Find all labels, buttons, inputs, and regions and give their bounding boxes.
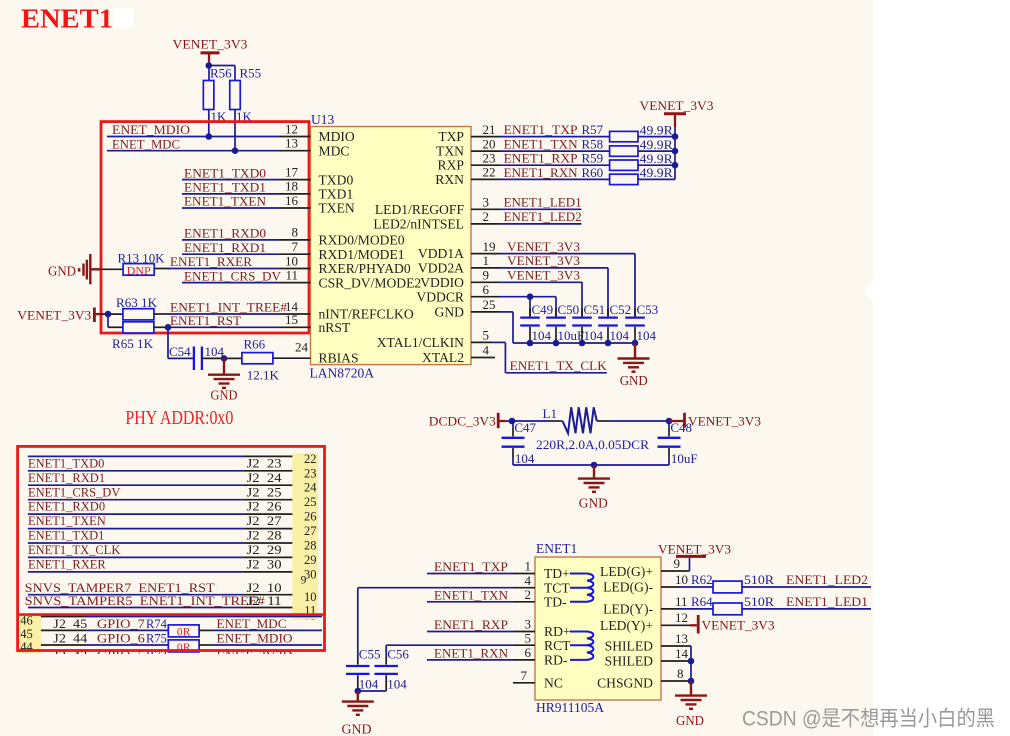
capacitor C50 10uF [546, 302, 584, 343]
svg-text:2: 2 [483, 209, 490, 224]
svg-text:LED(Y)-: LED(Y)- [603, 602, 653, 618]
svg-text:R60: R60 [582, 165, 604, 180]
svg-text:VENET_3V3: VENET_3V3 [688, 415, 761, 429]
svg-text:ENET1_TXN: ENET1_TXN [434, 588, 508, 602]
resistor R58 49.9R [610, 137, 675, 156]
svg-text:104: 104 [515, 451, 535, 466]
wire shield pins 13/14/8 to ground [661, 631, 694, 684]
svg-text:ENET_MDC: ENET_MDC [112, 137, 180, 151]
net ENET1_TXN pin 2 [427, 587, 535, 602]
svg-text:ENET1_TXD0: ENET1_TXD0 [184, 166, 266, 180]
svg-text:9: 9 [301, 575, 307, 587]
clipped bottom row [53, 649, 292, 663]
svg-text:VENET_3V3: VENET_3V3 [17, 309, 91, 323]
svg-text:13: 13 [285, 136, 298, 151]
net ENET1_TXEN pin 16 [182, 193, 311, 209]
net ENET1_LED1 pin 11 via R64 [661, 594, 713, 609]
svg-text:15: 15 [285, 312, 298, 327]
svg-text:C48: C48 [670, 420, 692, 435]
svg-text:25: 25 [483, 297, 496, 312]
svg-text:ENET1_RST: ENET1_RST [170, 314, 241, 328]
svg-text:49.9R: 49.9R [640, 151, 673, 166]
wire J2 pin 22 (clipped row) [28, 455, 293, 457]
svg-text:R13 10K: R13 10K [118, 250, 166, 265]
svg-text:C49: C49 [532, 302, 554, 317]
svg-text:ENET1_RXD0: ENET1_RXD0 [184, 227, 266, 241]
svg-text:RBIAS: RBIAS [319, 351, 359, 366]
svg-text:SHILED: SHILED [605, 639, 654, 654]
svg-text:LED2/nINTSEL: LED2/nINTSEL [373, 217, 464, 232]
svg-text:VENET_3V3: VENET_3V3 [507, 240, 580, 254]
svg-text:29: 29 [304, 553, 317, 567]
svg-text:J2 25: J2 25 [247, 485, 282, 499]
svg-text:TCT: TCT [544, 580, 570, 595]
power VENET_3V3 (top) [173, 38, 248, 61]
power VENET_3V3 pin 12 [661, 610, 775, 634]
net ENET1_RXD1 pin 7 [182, 239, 311, 255]
connector J2 strip (left) [18, 613, 41, 653]
svg-text:24: 24 [304, 481, 317, 495]
svg-text:MDIO: MDIO [319, 129, 355, 144]
net ENET_MDIO pin 12 [107, 121, 311, 137]
svg-text:28: 28 [304, 539, 317, 553]
svg-text:8: 8 [292, 225, 299, 240]
resistor R75 0R [168, 640, 199, 654]
svg-text:LED(Y)+: LED(Y)+ [600, 618, 653, 634]
svg-text:ENET1_TXP: ENET1_TXP [434, 560, 508, 574]
net ENET_MDIO [199, 632, 322, 646]
svg-text:R55: R55 [240, 66, 262, 81]
white cursor box [113, 8, 134, 28]
ground below C54 [208, 358, 240, 402]
svg-text:RCT: RCT [544, 638, 571, 653]
wire C47/C48 ground bus [513, 462, 669, 469]
svg-text:R56: R56 [210, 66, 232, 81]
net ENET1_TX_CLK J2 pin 29 [28, 543, 293, 557]
net VENET_3V3 pin 9 to C51 [471, 268, 582, 317]
svg-text:ENET1_TXD1: ENET1_TXD1 [184, 181, 266, 195]
svg-text:TD-: TD- [544, 594, 567, 609]
svg-text:TXD0: TXD0 [319, 172, 354, 187]
svg-text:TXP: TXP [438, 129, 464, 144]
transformer coil (TX) [570, 574, 593, 602]
resistor R64 510R [713, 594, 871, 615]
svg-text:21: 21 [483, 122, 496, 137]
net ENET1_LED2 pin 2 [471, 209, 582, 224]
svg-text:ENET1_RXN: ENET1_RXN [504, 166, 578, 180]
svg-text:J2 23: J2 23 [247, 456, 282, 470]
net ENET1_RXER pin 10 [154, 253, 310, 269]
svg-text:ENET1_TXEN: ENET1_TXEN [28, 514, 106, 528]
svg-text:J2 30: J2 30 [247, 558, 282, 572]
svg-text:ENET1_RXER: ENET1_RXER [28, 558, 106, 572]
svg-text:ENET_MDIO: ENET_MDIO [112, 123, 190, 137]
svg-text:3: 3 [483, 195, 490, 210]
svg-text:GPIO_6: GPIO_6 [97, 632, 145, 646]
svg-text:ENET1_LED1: ENET1_LED1 [504, 196, 582, 210]
net ENET_MDC pin 13 [107, 136, 311, 152]
svg-text:ENET1_TX_CLK: ENET1_TX_CLK [510, 359, 607, 373]
svg-text:11: 11 [675, 594, 688, 609]
svg-text:49.9R: 49.9R [640, 137, 673, 152]
net ENET1_TXD0 pin 17 [182, 164, 311, 180]
svg-text:R64: R64 [691, 594, 713, 609]
svg-text:ENET1_RXN: ENET1_RXN [434, 647, 508, 661]
svg-text:RXER/PHYAD0: RXER/PHYAD0 [319, 261, 411, 276]
power VENET_3V3 (right of resistors) [640, 99, 714, 137]
connector J2 strip (right) [292, 452, 318, 631]
wire RST to C54 [165, 324, 194, 358]
svg-text:C53: C53 [637, 302, 659, 317]
svg-text:XTAL2: XTAL2 [422, 350, 464, 365]
svg-text:7: 7 [292, 239, 299, 254]
red highlight box lower [18, 446, 325, 650]
svg-text:ENET1_RXP: ENET1_RXP [504, 152, 578, 166]
svg-text:LAN8720A: LAN8720A [310, 366, 375, 381]
red highlight box upper [101, 122, 309, 333]
net ENET1_TXD1 J2 pin 28 [28, 529, 293, 543]
svg-text:GND: GND [342, 723, 372, 736]
net ENET1_CRS_DV pin 11 [182, 267, 311, 283]
net ENET1_RST pin 15 [154, 312, 311, 328]
svg-text:104: 104 [359, 677, 379, 692]
svg-text:220R,2.0A,0.05DCR: 220R,2.0A,0.05DCR [536, 437, 649, 452]
net ENET1_TX_CLK pin 5 [471, 328, 607, 373]
svg-text:CSR_DV/MODE2: CSR_DV/MODE2 [319, 275, 422, 290]
wire cap ground bus [513, 340, 638, 347]
svg-text:20: 20 [483, 136, 496, 151]
net ENET1_RXP pin 23 [471, 150, 610, 165]
capacitor C51 104 [572, 302, 605, 343]
svg-text:DCDC_3V3: DCDC_3V3 [429, 415, 496, 429]
svg-text:ENET1: ENET1 [21, 4, 113, 34]
svg-text:SHILED: SHILED [605, 654, 654, 669]
svg-text:VDD2A: VDD2A [418, 261, 464, 276]
chip U13 right pin labels [373, 129, 465, 365]
svg-text:J2 28: J2 28 [247, 529, 282, 543]
capacitor C48 10uF [658, 420, 698, 466]
svg-text:TXD1: TXD1 [319, 187, 354, 202]
svg-text:4: 4 [483, 343, 490, 358]
svg-text:23: 23 [304, 466, 317, 480]
svg-text:SNVS_TAMPER5 ENET1_INT_TREE#: SNVS_TAMPER5 ENET1_INT_TREE# [25, 594, 266, 608]
svg-text:GND: GND [620, 373, 648, 388]
ground below C55/C56 [342, 691, 374, 736]
svg-text:104: 104 [610, 328, 630, 343]
svg-text:LED(G)-: LED(G)- [603, 580, 653, 596]
chip HR911105A right labels [597, 564, 653, 691]
wire VDDCR pin 6 to C49/C50 [471, 282, 556, 317]
svg-text:RXD0/MODE0: RXD0/MODE0 [319, 233, 405, 248]
net ENET1_CRS_DV J2 pin 25 [28, 485, 293, 499]
svg-text:10: 10 [285, 253, 298, 268]
capacitor C56 104 [355, 647, 410, 695]
svg-text:4: 4 [525, 573, 532, 588]
wire J2 pin 46 [41, 616, 322, 618]
net SNVS_TAMPER7 ENET1_RST J2 pin 10 [25, 581, 293, 595]
net VENET_3V3 pin 19 to C53 [471, 239, 635, 317]
svg-text:ENET1_TX_CLK: ENET1_TX_CLK [28, 543, 120, 557]
svg-text:R74: R74 [146, 617, 168, 631]
svg-text:ENET1_RXP: ENET1_RXP [434, 618, 508, 632]
svg-text:VENET_3V3: VENET_3V3 [507, 254, 580, 268]
svg-text:ENET1_RXER: ENET1_RXER [170, 255, 253, 269]
svg-text:CHSGND: CHSGND [597, 675, 653, 690]
svg-text:PHY ADDR:0x0: PHY ADDR:0x0 [125, 408, 233, 429]
svg-text:ENET1_LED2: ENET1_LED2 [786, 573, 868, 587]
svg-text:104: 104 [387, 677, 407, 692]
net ENET1_RXN pin 22 [471, 165, 610, 180]
svg-text:ENET1_TXD1: ENET1_TXD1 [28, 529, 104, 543]
svg-text:R57: R57 [582, 122, 604, 137]
pin 4 XTAL2 stub [471, 343, 495, 358]
wire RCT pin 5 to C56 [386, 630, 535, 657]
svg-text:C50: C50 [558, 302, 580, 317]
svg-text:CSDN @是不想再当小白的黑: CSDN @是不想再当小白的黑 [742, 708, 995, 731]
svg-text:8: 8 [677, 666, 684, 681]
net ENET1_LED1 pin 3 [471, 195, 582, 210]
svg-text:ENET_MDC: ENET_MDC [217, 617, 287, 631]
svg-text:ENET1_TXN: ENET1_TXN [504, 138, 578, 152]
pin 7 NC stub [513, 668, 535, 683]
svg-text:ENET1_RXD0: ENET1_RXD0 [28, 500, 105, 514]
svg-text:27: 27 [304, 524, 317, 538]
svg-text:1: 1 [525, 559, 532, 574]
svg-text:7: 7 [521, 668, 528, 683]
capacitor C49 104 [520, 302, 553, 343]
svg-text:12: 12 [675, 610, 688, 625]
svg-text:0R: 0R [177, 625, 191, 638]
net ENET1_TXD1 pin 18 [182, 179, 311, 195]
net ENET1_RXER J2 pin 30 [28, 558, 293, 572]
svg-text:GND: GND [435, 305, 465, 320]
svg-text:23: 23 [483, 150, 496, 165]
svg-text:R59: R59 [582, 151, 604, 166]
svg-text:C55: C55 [359, 647, 381, 662]
svg-text:GND: GND [48, 264, 76, 279]
net ENET1_LED2 pin 10 via R62 [661, 572, 713, 587]
svg-text:13: 13 [675, 631, 688, 646]
svg-text:ENET_MDIO: ENET_MDIO [217, 632, 293, 646]
svg-text:5: 5 [483, 328, 490, 343]
net ENET1_RXD1 J2 pin 24 [28, 471, 293, 485]
net ENET1_TXD0 J2 pin 23 [28, 456, 293, 470]
svg-text:104: 104 [637, 328, 657, 343]
net ENET1_RXP pin 3 [427, 617, 535, 632]
chip U13 LAN8720A body [310, 112, 472, 381]
svg-text:MDC: MDC [319, 143, 350, 158]
net ENET1_RXN pin 6 [427, 645, 535, 661]
wire GND pin 25 to cap bus [471, 297, 513, 343]
wire R56 to MDIO [206, 110, 213, 140]
svg-text:XTAL1/CLKIN: XTAL1/CLKIN [377, 335, 464, 350]
svg-text:10uF: 10uF [671, 451, 698, 466]
svg-text:104: 104 [532, 328, 552, 343]
svg-text:R62: R62 [691, 572, 713, 587]
svg-text:C56: C56 [387, 647, 409, 662]
svg-text:TD+: TD+ [544, 566, 570, 581]
svg-text:GPIO_7: GPIO_7 [97, 617, 145, 631]
net ENET1_RXD0 pin 8 [182, 225, 311, 241]
net VENET_3V3 pin 1 to C52 [471, 253, 608, 316]
power DCDC_3V3 [429, 413, 505, 429]
net ENET1_TXP pin 21 [471, 122, 610, 137]
svg-text:ENET1_TXD0: ENET1_TXD0 [28, 456, 104, 470]
svg-text:J2 10: J2 10 [247, 581, 282, 595]
ground below L1 filter [578, 465, 610, 511]
svg-text:26: 26 [304, 510, 317, 524]
svg-text:GND: GND [676, 714, 704, 729]
svg-text:5: 5 [525, 630, 532, 645]
resistor R57 49.9R [610, 122, 675, 141]
svg-text:C54: C54 [169, 344, 191, 359]
svg-text:9: 9 [483, 268, 490, 283]
svg-text:VDDIO: VDDIO [420, 275, 464, 290]
wire DCDC_3V3 to L1 [505, 418, 563, 425]
svg-text:TXEN: TXEN [319, 201, 355, 216]
svg-text:L1: L1 [543, 406, 557, 421]
svg-text:LED1/REGOFF: LED1/REGOFF [375, 202, 465, 217]
resistor R62 510R [713, 572, 871, 593]
svg-text:ENET1_TXEN: ENET1_TXEN [184, 195, 266, 209]
svg-text:6: 6 [483, 282, 490, 297]
resistor R66 pin 24 [242, 337, 311, 383]
label PHY ADDR:0x0 [125, 408, 233, 429]
svg-text:RXP: RXP [438, 158, 465, 173]
power VENET_3V3 pin 9 [535, 542, 731, 571]
svg-text:ENET1_CRS_DV: ENET1_CRS_DV [28, 485, 120, 499]
wire bus to VENET_3V3 (resistors) [672, 133, 679, 179]
svg-text:RXN: RXN [435, 172, 464, 187]
svg-text:GND: GND [211, 388, 238, 403]
wire R55 to MDC [232, 110, 239, 155]
wire VENET_3V3 to R63/R65 [101, 311, 123, 327]
capacitor C53 104 [625, 302, 658, 343]
svg-text:U13: U13 [311, 112, 334, 127]
svg-text:C47: C47 [514, 420, 536, 435]
svg-text:J2 11: J2 11 [247, 594, 282, 608]
svg-text:GND: GND [579, 496, 608, 511]
svg-text:J2 24: J2 24 [247, 471, 283, 485]
ground below C53 [618, 343, 650, 388]
svg-text:ENET1_TXP: ENET1_TXP [504, 123, 578, 137]
resistor R74 0R [168, 625, 199, 638]
resistor R60 49.9R [610, 165, 675, 184]
svg-text:9: 9 [674, 556, 681, 571]
svg-text:R63 1K: R63 1K [116, 295, 158, 310]
wire VENET_3V3 to R56/R55 [206, 61, 236, 81]
net ENET1_TXN pin 20 [471, 136, 610, 151]
net ENET_MDC [199, 617, 322, 631]
svg-text:22: 22 [304, 452, 317, 466]
svg-text:ENET1: ENET1 [536, 541, 577, 556]
svg-text:VDDCR: VDDCR [416, 289, 465, 304]
power VENET_3V3 (right of L1) [669, 413, 761, 429]
svg-text:1: 1 [483, 253, 490, 268]
svg-text:ENET1_CRS_DV: ENET1_CRS_DV [184, 269, 281, 283]
svg-text:R65 1K: R65 1K [112, 336, 154, 351]
svg-text:NC: NC [544, 675, 563, 690]
svg-text:J2 44: J2 44 [53, 632, 88, 646]
svg-text:ENET1_LED1: ENET1_LED1 [786, 595, 868, 609]
net SNVS_TAMPER5 ENET1_INT_TREE# J2 pin 11 [25, 594, 293, 608]
svg-text:10: 10 [304, 590, 317, 604]
svg-text:J2 26: J2 26 [247, 500, 282, 514]
resistor R65 [112, 322, 154, 351]
svg-text:10: 10 [675, 572, 688, 587]
svg-text:SNVS_TAMPER7 ENET1_RST: SNVS_TAMPER7 ENET1_RST [25, 581, 215, 595]
net ENET1_TXP pin 1 [427, 559, 535, 574]
resistor R13 DNP [118, 250, 166, 277]
svg-text:25: 25 [304, 495, 317, 509]
svg-text:12: 12 [285, 121, 298, 136]
svg-text:14: 14 [675, 646, 689, 661]
power VENET_3V3 (left) [17, 308, 101, 323]
svg-text:ENET1_RXD1: ENET1_RXD1 [184, 241, 266, 255]
svg-text:R66: R66 [244, 337, 266, 352]
svg-text:19: 19 [483, 239, 496, 254]
svg-text:nRST: nRST [319, 320, 351, 335]
chip HR911105A body [535, 541, 661, 715]
svg-text:24: 24 [295, 339, 309, 354]
wire TCT pin 4 to C55 [358, 573, 535, 657]
svg-text:J2 29: J2 29 [247, 543, 282, 557]
svg-text:18: 18 [285, 179, 298, 194]
svg-text:510R: 510R [744, 572, 774, 587]
svg-text:J2 27: J2 27 [247, 514, 282, 528]
svg-text:510R: 510R [744, 594, 774, 609]
net ENET1_INT_TREE# pin 14 [154, 299, 311, 315]
svg-text:DNP: DNP [127, 264, 151, 277]
svg-text:17: 17 [285, 164, 299, 179]
svg-text:VENET_3V3: VENET_3V3 [640, 99, 714, 113]
wire C54 to R66 [202, 355, 242, 362]
chip U13 left pin labels [319, 129, 422, 365]
svg-text:R58: R58 [582, 137, 604, 152]
white side strip [873, 0, 1010, 736]
svg-text:16: 16 [285, 193, 299, 208]
resistor R59 49.9R [610, 151, 675, 170]
svg-text:22: 22 [483, 165, 496, 180]
svg-text:VDD1A: VDD1A [418, 246, 464, 261]
svg-text:C51: C51 [584, 302, 606, 317]
capacitor C55 104 [346, 647, 380, 692]
svg-text:VENET_3V3: VENET_3V3 [658, 542, 731, 556]
svg-text:2: 2 [525, 587, 532, 602]
svg-text:RD-: RD- [544, 653, 568, 668]
svg-text:VENET_3V3: VENET_3V3 [173, 38, 248, 52]
wire L1 to VENET_3V3 [597, 418, 673, 425]
net J2_45 GPIO_7 jumper [41, 617, 168, 631]
chip HR911105A left labels [544, 566, 571, 690]
resistor R56 [203, 66, 232, 125]
capacitor C52 104 [598, 302, 631, 343]
svg-text:49.9R: 49.9R [640, 165, 673, 180]
resistor R63 [116, 295, 158, 320]
svg-text:RXD1/MODE1: RXD1/MODE1 [319, 247, 405, 262]
transformer coil (RX) [570, 632, 593, 660]
svg-text:ENET1_RXD1: ENET1_RXD1 [28, 471, 105, 485]
svg-text:6: 6 [525, 645, 532, 660]
svg-text:VENET_3V3: VENET_3V3 [702, 618, 775, 632]
watermark [742, 708, 995, 731]
svg-text:49.9R: 49.9R [640, 122, 673, 137]
title ENET1 [21, 4, 113, 34]
ground GND (left of R13) [48, 254, 101, 284]
svg-text:11: 11 [285, 267, 298, 282]
svg-text:HR911105A: HR911105A [536, 700, 604, 715]
svg-text:R75: R75 [146, 632, 167, 646]
